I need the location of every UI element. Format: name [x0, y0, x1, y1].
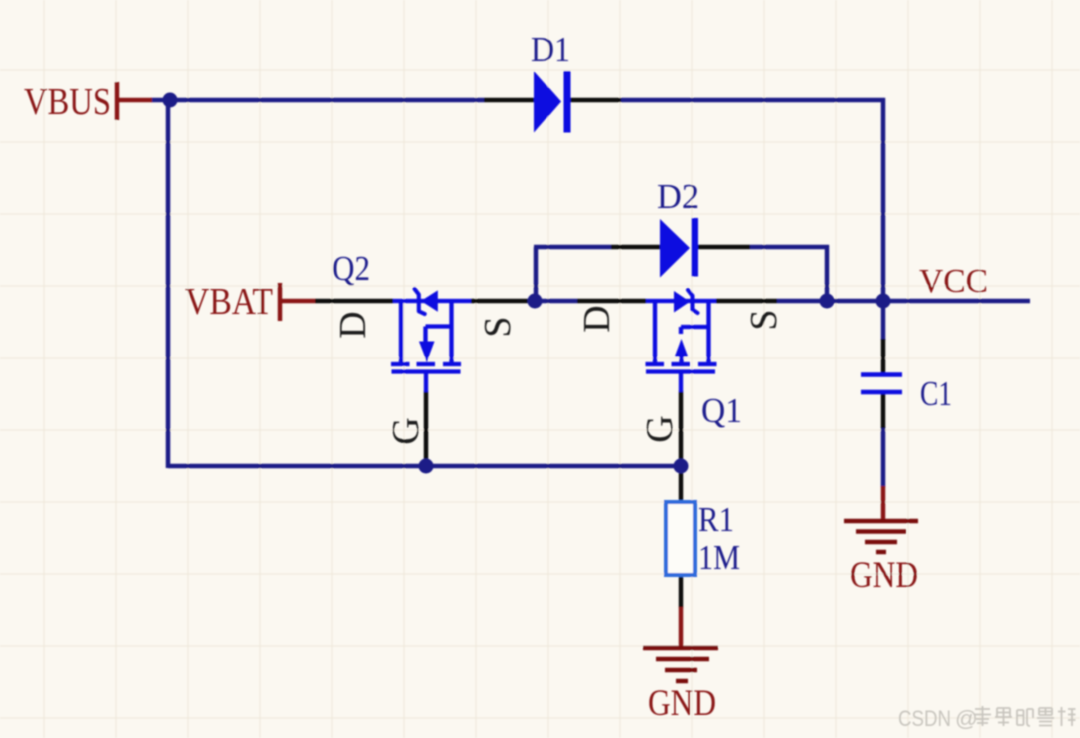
svg-text:C1: C1	[920, 374, 952, 413]
svg-text:D2: D2	[657, 177, 699, 216]
svg-text:VBUS: VBUS	[24, 81, 111, 123]
svg-text:CSDN: CSDN	[898, 706, 951, 731]
svg-text:@: @	[955, 706, 978, 731]
svg-text:G: G	[639, 415, 681, 442]
svg-text:Q1: Q1	[701, 391, 742, 430]
svg-text:GND: GND	[648, 683, 716, 724]
svg-text:GND: GND	[850, 555, 918, 596]
svg-text:R1: R1	[698, 500, 734, 539]
svg-text:S: S	[477, 316, 519, 337]
svg-text:VCC: VCC	[919, 263, 988, 300]
svg-text:VBAT: VBAT	[185, 281, 273, 323]
svg-text:Q2: Q2	[332, 249, 370, 288]
svg-text:D1: D1	[531, 30, 570, 69]
svg-text:G: G	[385, 417, 427, 444]
svg-text:D: D	[332, 311, 374, 338]
svg-text:S: S	[743, 309, 785, 330]
svg-text:D: D	[576, 305, 618, 332]
svg-text:1M: 1M	[698, 538, 740, 577]
